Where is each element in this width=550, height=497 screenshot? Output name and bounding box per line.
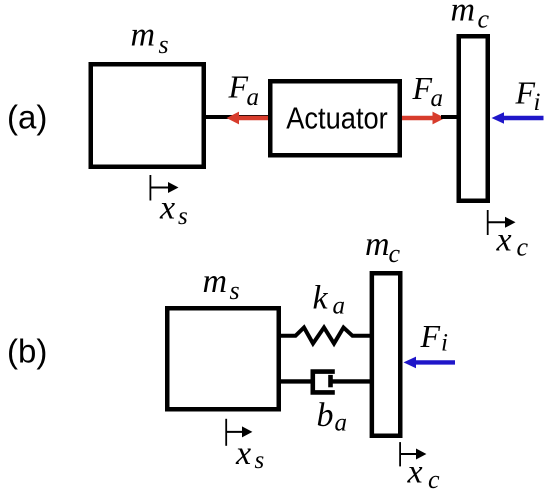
- svg-text:F: F: [228, 69, 249, 105]
- svg-text:m: m: [451, 0, 476, 29]
- blue arrow F_i (b): [404, 357, 456, 369]
- svg-text:x: x: [235, 435, 251, 472]
- mass m_c bar (b): [372, 273, 400, 436]
- x_c label (a): [496, 222, 529, 262]
- x_c label (b): [407, 454, 441, 494]
- m_s label (a): [131, 17, 169, 60]
- svg-text:c: c: [428, 465, 440, 494]
- m_s label (b): [203, 263, 240, 305]
- svg-text:F: F: [515, 75, 536, 111]
- svg-text:c: c: [517, 233, 529, 262]
- svg-text:a: a: [333, 293, 346, 320]
- svg-text:s: s: [178, 203, 188, 230]
- x_s coordinate marker (a): [150, 175, 178, 201]
- svg-text:F: F: [420, 318, 441, 354]
- svg-text:x: x: [496, 222, 512, 259]
- m_c label (b): [365, 226, 401, 268]
- wire m_s to actuator: [204, 115, 270, 119]
- F_i label (b): [420, 318, 449, 357]
- svg-text:i: i: [534, 89, 541, 116]
- red arrow F_a pointing right at actuator output: [402, 112, 445, 125]
- F_a label left: [228, 69, 260, 112]
- blue arrow F_i (a): [492, 112, 544, 124]
- damper b_a cup: [313, 372, 335, 393]
- svg-text:m: m: [365, 226, 390, 263]
- spring k_a: [278, 328, 372, 344]
- svg-text:s: s: [230, 276, 240, 305]
- F_i label (a): [515, 75, 541, 117]
- damper b_a piston: [328, 375, 333, 387]
- svg-text:i: i: [441, 330, 448, 357]
- svg-text:c: c: [478, 5, 490, 34]
- svg-text:(b): (b): [7, 333, 47, 370]
- x_c coordinate marker (b): [400, 442, 426, 466]
- damper b_a left lead wire: [278, 379, 312, 383]
- red arrow F_a pointing left at actuator input: [227, 112, 269, 125]
- mass m_s box (a): [91, 64, 204, 167]
- svg-text:a: a: [431, 85, 444, 112]
- x_c coordinate marker (a): [488, 210, 516, 235]
- actuator box U1: [270, 81, 400, 155]
- x_s label (a): [159, 190, 188, 231]
- mass m_s box (b): [167, 308, 279, 409]
- svg-text:s: s: [255, 447, 265, 474]
- x_s label (b): [235, 435, 264, 474]
- svg-text:F: F: [412, 70, 433, 106]
- svg-text:s: s: [159, 30, 169, 59]
- damper b_a rod wire: [331, 379, 373, 383]
- svg-text:a: a: [335, 410, 348, 437]
- wire actuator to m_c: [441, 115, 458, 119]
- m_c label (a): [451, 0, 490, 34]
- b_a label: [317, 397, 348, 437]
- F_a label right: [412, 70, 444, 112]
- svg-text:b: b: [317, 397, 334, 434]
- svg-text:k: k: [313, 280, 329, 317]
- svg-text:x: x: [407, 454, 423, 491]
- svg-text:Actuator: Actuator: [286, 101, 388, 136]
- k_a label: [313, 280, 346, 320]
- svg-text:a: a: [247, 84, 260, 111]
- svg-text:m: m: [131, 17, 156, 54]
- svg-text:m: m: [203, 263, 228, 300]
- svg-text:c: c: [389, 239, 401, 268]
- mass m_c bar (a): [459, 36, 488, 201]
- svg-text:x: x: [159, 190, 175, 227]
- svg-text:(a): (a): [7, 99, 47, 136]
- x_s coordinate marker (b): [226, 419, 252, 446]
